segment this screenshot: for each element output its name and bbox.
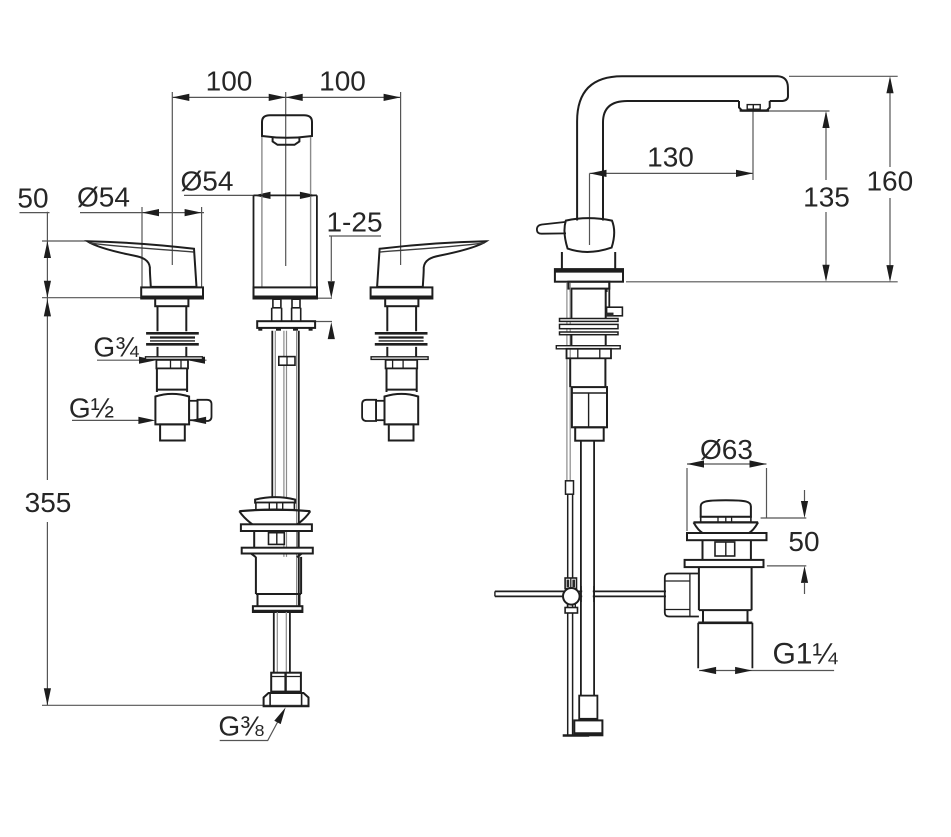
ext Ø63 left (686, 468, 688, 531)
escutcheon side (555, 269, 623, 282)
hex side (567, 349, 612, 359)
horizontal rod (495, 591, 666, 596)
left handle escutcheon (141, 287, 203, 298)
left thread stack (146, 332, 199, 335)
waste flange2 (242, 548, 313, 554)
ext line spout axis (285, 92, 287, 266)
drain tube below flange (272, 331, 299, 607)
svg-text:G¾: G¾ (93, 332, 139, 363)
ext line right handle axis (400, 92, 402, 265)
tailpipe (274, 612, 290, 673)
flange clips (258, 328, 312, 331)
svg-text:355: 355 (25, 487, 72, 518)
left lower block (160, 424, 185, 440)
arrows 160 (886, 76, 893, 282)
left handle lever (88, 241, 197, 287)
svg-text:100: 100 (319, 66, 366, 97)
waste cap front (255, 497, 295, 503)
waste skirt (251, 554, 302, 558)
arrow 50 bottom (44, 281, 51, 298)
left shank lower (158, 347, 187, 360)
spout twin tails (272, 308, 301, 321)
ext 1-25 bottom (313, 321, 332, 323)
spout nuts (273, 299, 281, 308)
right shank lower (387, 347, 416, 360)
svg-text:50: 50 (17, 183, 48, 214)
spout aerator (273, 138, 300, 145)
svg-text:Ø54: Ø54 (77, 182, 130, 213)
svg-text:160: 160 (866, 166, 913, 197)
arrow 355 bottom (44, 688, 51, 705)
svg-text:130: 130 (647, 142, 694, 173)
waste flange1 (241, 524, 312, 531)
left valve block (155, 394, 189, 425)
svg-text:100: 100 (206, 66, 253, 97)
G3/8 leader (220, 719, 280, 741)
arrows Ø54 center (254, 192, 317, 199)
arrow G3/8 (274, 707, 285, 724)
right handle escutcheon (371, 287, 433, 298)
spout body inner lines (262, 137, 311, 287)
left shank (158, 306, 187, 331)
handle neck (562, 252, 615, 269)
right thread stack (375, 332, 428, 335)
mounting flange (257, 321, 315, 328)
ext 50R top (761, 517, 807, 519)
arrow 50 top (44, 241, 51, 258)
handle tab (537, 222, 566, 234)
ext line left handle axis (171, 92, 173, 265)
step side (568, 282, 609, 289)
pop rod channel (567, 283, 570, 481)
dim line Ø54 left (80, 212, 204, 214)
ext 130 left (589, 173, 591, 245)
dim Ø63 line (687, 463, 767, 465)
rod clip (566, 481, 574, 494)
handle dome side (564, 218, 614, 252)
ball lower tab (568, 604, 576, 608)
side port S (608, 283, 610, 307)
ext line Ø54 left b (201, 207, 203, 287)
right handle lever (377, 241, 486, 287)
drain tube (698, 623, 752, 669)
dim 130 line (590, 172, 754, 174)
spout riser outer (577, 76, 778, 220)
dim 1-25 underline (329, 235, 381, 237)
right shank (387, 306, 416, 331)
dim 135 vertical (825, 113, 827, 279)
dim 50/355 vertical line (46, 212, 48, 706)
supply hose (581, 441, 594, 696)
arrows 1-25 (328, 281, 335, 339)
dim 160 vertical (889, 79, 891, 279)
spout riser inner (603, 101, 739, 221)
svg-text:G½: G½ (69, 393, 114, 424)
drain drum (703, 540, 751, 560)
baseline 355 (42, 704, 309, 706)
ext line escutcheon bottom (42, 297, 141, 299)
left step (155, 299, 188, 307)
drain cap ring (701, 517, 751, 522)
dim 50 underline (20, 212, 50, 214)
50R arrow stubs (804, 490, 806, 594)
ext 135/160 bottom (626, 281, 898, 283)
arrow 100 right (384, 94, 401, 101)
ext Ø63 right (766, 468, 768, 518)
ext 160 top (789, 75, 898, 77)
dim 1-25 vertical (330, 236, 332, 281)
arrows G1 1/4 (699, 667, 752, 674)
svg-text:50: 50 (788, 526, 819, 557)
drain body inset (703, 610, 748, 623)
right side port (376, 401, 384, 420)
ext line Ø54 left a (141, 207, 143, 287)
spout arm end (770, 76, 788, 101)
block side (572, 387, 607, 427)
svg-text:G⅜: G⅜ (218, 711, 264, 742)
waste bottom (253, 606, 303, 612)
spout escutcheon (254, 287, 318, 298)
rod hex (279, 357, 295, 366)
waste body (256, 557, 301, 594)
svg-text:1-25: 1-25 (326, 207, 382, 238)
body side (570, 359, 605, 387)
drain flare (694, 521, 759, 523)
drain body side (699, 567, 752, 610)
drain flange1 (687, 533, 767, 540)
rod foot (563, 734, 590, 737)
hose in front of rod (582, 589, 593, 598)
ext 1-25 top (317, 297, 332, 299)
lower block side (575, 427, 604, 440)
right handle group (mirrored) (362, 241, 486, 440)
arrows Ø63 (687, 460, 767, 467)
left hex nut (146, 357, 203, 360)
drain flange2 (685, 560, 764, 567)
arrows G3/4 (139, 357, 205, 364)
ext 130 right (752, 111, 754, 180)
rod lower (568, 494, 573, 735)
svg-text:135: 135 (803, 182, 850, 213)
aerator side (739, 101, 770, 111)
waste flare (239, 510, 310, 512)
arrows 130 (590, 170, 754, 177)
coupling (271, 673, 301, 692)
ext line handle top (42, 240, 88, 242)
svg-text:Ø63: Ø63 (700, 434, 753, 465)
right lower block (389, 424, 414, 440)
G3/8 nut (264, 693, 309, 706)
hose nut (574, 720, 602, 735)
arrows 135 (822, 111, 829, 282)
spout skirt (254, 195, 317, 287)
thread stack side (560, 319, 619, 322)
arrow 100 left (172, 94, 189, 101)
left body (157, 368, 187, 392)
drain plug cap side (701, 500, 751, 517)
ball joint (563, 588, 580, 605)
arrow 100 center pair (269, 94, 303, 101)
ext 50R bottom (767, 565, 806, 567)
arrow 355 top (44, 299, 51, 316)
G1/2 leader (72, 419, 207, 421)
arrows 50R (801, 501, 808, 583)
arrows Ø54 left (142, 209, 202, 216)
ext 135 top (753, 110, 830, 112)
left side port (189, 401, 197, 420)
flange side (556, 346, 620, 349)
right body (386, 368, 416, 392)
G3/4 leader (97, 359, 207, 361)
dim line Ø54 center (184, 194, 317, 196)
shank side (571, 289, 605, 319)
hose coupling (579, 696, 597, 719)
arrows G1/2 (138, 417, 206, 424)
svg-text:Ø54: Ø54 (181, 166, 234, 197)
right step (385, 299, 418, 307)
svg-text:G1¼: G1¼ (772, 638, 838, 671)
ball joint cap (565, 578, 576, 589)
waste drum (254, 531, 298, 548)
right hex nut (371, 357, 428, 360)
spout cap (262, 115, 312, 137)
dim G1 1/4 line (699, 670, 834, 672)
rod nut (665, 574, 699, 617)
waste tick ring (256, 503, 295, 511)
right valve block (384, 394, 418, 425)
shank side lower (571, 335, 605, 346)
dim 100/100 top line (172, 96, 400, 98)
